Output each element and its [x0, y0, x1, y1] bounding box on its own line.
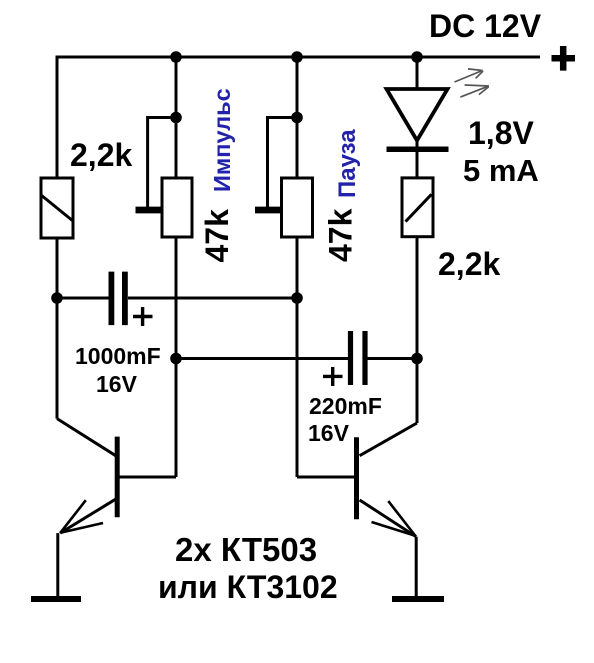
svg-text:16V: 16V — [308, 420, 350, 446]
svg-text:16V: 16V — [96, 371, 138, 397]
svg-text:2,2k: 2,2k — [438, 246, 500, 282]
svg-text:1,8V: 1,8V — [468, 115, 534, 151]
svg-text:220mF: 220mF — [309, 393, 382, 419]
svg-text:или КТ3102: или КТ3102 — [158, 569, 338, 605]
svg-text:Импульс: Импульс — [209, 88, 235, 192]
svg-text:5 mA: 5 mA — [463, 153, 539, 188]
svg-text:2x КТ503: 2x КТ503 — [175, 531, 317, 568]
svg-text:47k: 47k — [323, 208, 359, 262]
svg-text:1000mF: 1000mF — [75, 343, 161, 369]
svg-text:DC 12V: DC 12V — [429, 8, 542, 44]
svg-text:47k: 47k — [199, 209, 235, 263]
svg-text:Пауза: Пауза — [334, 129, 361, 198]
svg-text:2,2k: 2,2k — [70, 137, 132, 173]
